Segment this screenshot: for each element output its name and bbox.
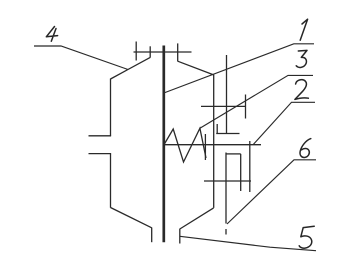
vessel left top slope bbox=[111, 57, 151, 79]
digit 2 label bbox=[295, 80, 309, 100]
vessel right top slope bbox=[178, 61, 214, 75]
vessel left neck vertical bbox=[149, 46, 151, 57]
outlet right vertical bbox=[179, 229, 181, 244]
vessel bottom left slope bbox=[111, 208, 152, 228]
spring end tick vertical bbox=[204, 134, 206, 160]
lower bearing axis vertical bbox=[225, 153, 227, 224]
upper bearing flange lip bbox=[216, 124, 218, 134]
leader line 4 underline bbox=[34, 46, 128, 70]
lower bearing right vertical bbox=[240, 154, 242, 191]
flange tick left outer bbox=[135, 42, 137, 61]
upper bearing right vertical bbox=[245, 95, 247, 119]
leader line 5 bbox=[180, 236, 316, 250]
side port stub lower bbox=[89, 153, 112, 155]
digit 4 label bbox=[46, 27, 57, 42]
arm horizontal at spring level bbox=[164, 144, 261, 146]
leader line 3 bbox=[200, 75, 313, 128]
shaft (item 1) central vertical bbox=[162, 46, 165, 243]
leader line 1 bbox=[164, 44, 314, 93]
lower bearing top horizontal bbox=[226, 153, 241, 155]
leader line 2 bbox=[254, 102, 316, 144]
top flange horizontal bbox=[134, 51, 192, 53]
vessel left wall upper bbox=[110, 79, 112, 136]
upper bearing column vertical bbox=[226, 55, 228, 134]
lower bearing crossbar bbox=[204, 180, 251, 182]
digit 1 label bbox=[300, 19, 307, 40]
right long tick vertical bbox=[249, 141, 251, 192]
upper bearing bottom flange bbox=[216, 133, 239, 135]
digit 5 label bbox=[299, 226, 314, 248]
lower bearing axis bottom dash bbox=[225, 229, 227, 235]
digit 6 label bbox=[300, 139, 311, 158]
outlet left vertical bbox=[151, 228, 153, 243]
leader line 6 bbox=[227, 160, 316, 224]
spring (item 3) zigzag bbox=[164, 128, 206, 162]
upper bearing crossbar bbox=[201, 105, 246, 107]
digit 3 label bbox=[296, 50, 307, 67]
vessel right neck vertical bbox=[177, 43, 179, 61]
vessel bottom right slope bbox=[180, 208, 214, 229]
vessel right wall bbox=[213, 75, 215, 208]
side port stub upper bbox=[89, 135, 112, 137]
vessel left wall lower bbox=[110, 154, 112, 208]
